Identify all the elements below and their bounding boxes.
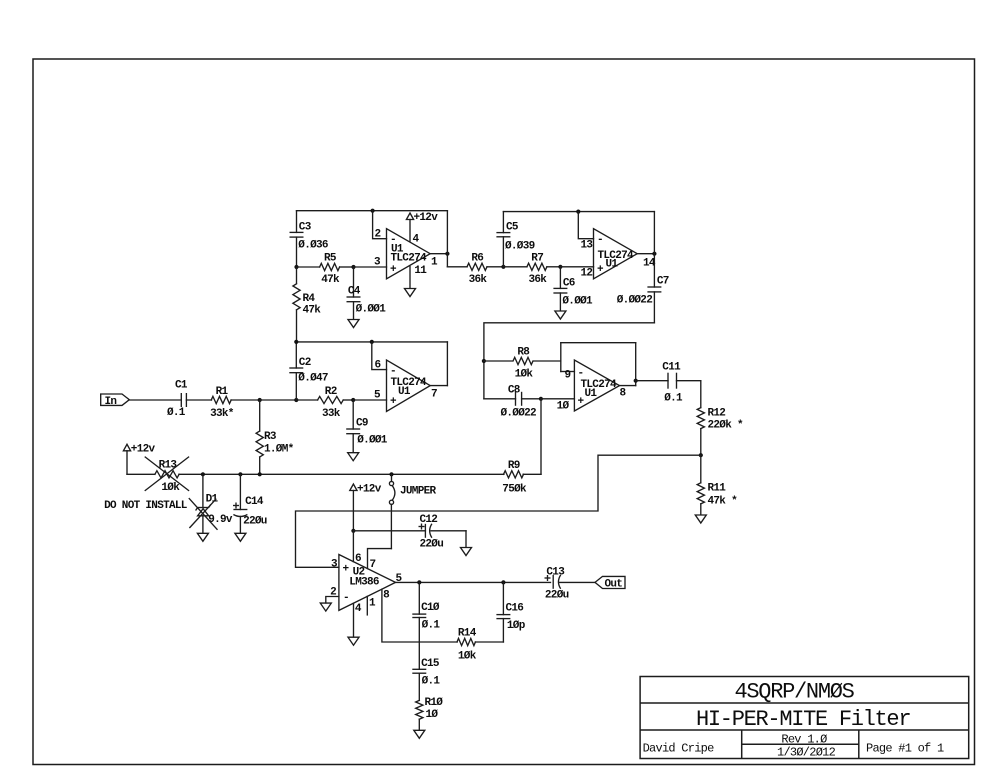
R14 label xyxy=(458,628,477,640)
svg-text:Ø.ØØ22: Ø.ØØ22 xyxy=(501,408,537,420)
R13 delete cross xyxy=(145,457,189,491)
wire U1a output xyxy=(430,253,447,255)
wire C2node to R2 xyxy=(296,399,317,401)
wire pin9 vertical xyxy=(560,343,562,372)
node R7/C6/pin12 xyxy=(558,265,562,269)
U1a +12v supply pin 4 xyxy=(406,213,413,241)
node stage3 top junction xyxy=(370,340,374,344)
svg-text:DO NOT INSTALL: DO NOT INSTALL xyxy=(104,500,188,512)
C14 value 220u xyxy=(243,516,267,528)
C3 value 0.036 xyxy=(298,240,328,252)
+12v label U1a xyxy=(414,212,439,224)
C2 label xyxy=(299,357,311,369)
svg-text:C8: C8 xyxy=(508,385,521,397)
C13 plus mark xyxy=(545,575,551,581)
wire pin5 stub xyxy=(353,399,386,401)
svg-text:Ø.1: Ø.1 xyxy=(422,676,441,688)
node C14 tap xyxy=(238,472,242,476)
wire U1c output xyxy=(430,385,447,387)
R2 label xyxy=(325,386,337,398)
+12v supply U2 xyxy=(350,484,357,531)
svg-text:R8: R8 xyxy=(517,347,530,359)
svg-text:In: In xyxy=(105,396,117,408)
svg-text:U1: U1 xyxy=(585,388,598,400)
svg-text:HI-PER-MITE Filter: HI-PER-MITE Filter xyxy=(696,707,910,732)
svg-text:+12v: +12v xyxy=(357,483,382,495)
resistor R5 xyxy=(297,263,354,270)
svg-text:Ø.ØØ22: Ø.ØØ22 xyxy=(617,295,653,307)
capacitor C5 xyxy=(496,212,510,267)
pin 14 label xyxy=(643,258,656,270)
pin 4 label xyxy=(413,234,420,246)
pin 7 label U2 xyxy=(370,559,376,571)
wire pin6 drop xyxy=(372,342,387,370)
svg-text:2: 2 xyxy=(330,587,336,599)
pin 3 label U2 xyxy=(331,558,338,570)
svg-text:Ø.ØØ1: Ø.ØØ1 xyxy=(562,296,593,308)
ground D1 xyxy=(197,533,208,541)
ground R11 xyxy=(695,515,706,523)
svg-text:1Øp: 1Øp xyxy=(507,620,526,632)
wire pin12 stub xyxy=(560,266,593,268)
svg-text:C13: C13 xyxy=(546,567,565,579)
pin 13 label xyxy=(581,240,594,252)
page Page #1 of 1 xyxy=(866,742,944,756)
wire In to C1 xyxy=(129,399,181,401)
connector In xyxy=(101,394,130,408)
C7 label xyxy=(657,276,669,288)
pin 5 label xyxy=(374,390,381,402)
title block frame xyxy=(640,677,969,759)
wire C12 to ground xyxy=(465,531,467,547)
svg-text:36k: 36k xyxy=(469,274,488,286)
svg-text:Ø.1: Ø.1 xyxy=(167,407,186,419)
D1 delete cross xyxy=(189,498,218,530)
title HI-PER-MITE Filter xyxy=(696,707,910,732)
svg-text:TLC274: TLC274 xyxy=(391,252,428,264)
capacitor C11 xyxy=(636,373,701,389)
ground C9 xyxy=(348,453,359,461)
svg-text:R1Ø: R1Ø xyxy=(425,697,444,709)
node C16 tap xyxy=(501,580,505,584)
svg-text:R7: R7 xyxy=(531,253,543,265)
svg-text:R9: R9 xyxy=(508,460,520,472)
node C10 tap xyxy=(417,580,421,584)
node U1b output xyxy=(652,252,656,256)
node R3 bottom xyxy=(258,472,262,476)
svg-text:-: - xyxy=(343,592,349,604)
svg-text:C4: C4 xyxy=(348,286,361,298)
svg-text:Out: Out xyxy=(605,578,623,590)
svg-text:C1: C1 xyxy=(175,380,188,392)
C15 value 0.1 xyxy=(422,676,441,688)
svg-text:U1: U1 xyxy=(606,259,619,271)
capacitor C14 polarized xyxy=(233,474,247,533)
C4 value 0.001 xyxy=(356,304,387,316)
C9 value 0.001 xyxy=(357,435,388,447)
wire U1a output vertical xyxy=(446,211,448,267)
pin 2 label xyxy=(375,229,381,241)
op-amp U1 section D xyxy=(574,360,619,411)
svg-text:13: 13 xyxy=(581,240,594,252)
wire C7 to stage4 input xyxy=(484,323,655,399)
svg-text:36k: 36k xyxy=(529,274,548,286)
pin 11 label xyxy=(414,265,427,277)
wire jumper to pin7 xyxy=(368,549,392,569)
svg-text:75Øk: 75Øk xyxy=(502,484,527,496)
pin 6 label U1c xyxy=(375,359,381,371)
node stage1 top junction xyxy=(371,209,375,213)
node R5/C4/pin3 xyxy=(351,265,355,269)
svg-text:22Øk *: 22Øk * xyxy=(708,420,744,432)
C13 label xyxy=(546,567,565,579)
pin 5 label U2 xyxy=(396,573,403,585)
svg-text:-: - xyxy=(597,234,603,246)
op-amp U1 section B xyxy=(594,229,638,279)
author David Cripe xyxy=(643,742,715,756)
ground U1a xyxy=(405,289,416,297)
svg-text:R2: R2 xyxy=(325,386,337,398)
pin 10 label xyxy=(557,401,570,413)
svg-text:6: 6 xyxy=(375,359,381,371)
ground C14 xyxy=(235,533,246,541)
svg-text:7: 7 xyxy=(370,559,376,571)
svg-text:C15: C15 xyxy=(421,658,440,670)
capacitor C13 polarized xyxy=(553,575,595,589)
C6 label xyxy=(563,278,575,290)
svg-text:R12: R12 xyxy=(708,408,726,420)
svg-text:+12v: +12v xyxy=(414,212,439,224)
R4 label xyxy=(303,293,316,305)
wire pin3 stub xyxy=(354,266,387,268)
capacitor C4 xyxy=(347,267,361,319)
+12v supply left xyxy=(123,444,130,474)
svg-text:R6: R6 xyxy=(471,253,483,265)
svg-text:C16: C16 xyxy=(506,603,524,615)
C4 label xyxy=(348,286,361,298)
svg-text:R1: R1 xyxy=(216,386,229,398)
svg-text:12: 12 xyxy=(581,268,593,280)
pin 8 label U1d xyxy=(620,388,627,400)
ground C12 xyxy=(461,548,472,556)
title 4SQRP/NM0S xyxy=(735,680,855,705)
wire pin4 drop xyxy=(353,603,355,637)
rev Rev 1.0 xyxy=(781,732,827,746)
R12 label xyxy=(708,408,726,420)
svg-text:C6: C6 xyxy=(563,278,575,290)
ground U2 pin2 xyxy=(320,603,331,611)
svg-text:Ø.Ø47: Ø.Ø47 xyxy=(298,373,328,385)
svg-text:11: 11 xyxy=(414,265,427,277)
svg-text:JUMPER: JUMPER xyxy=(400,486,437,498)
capacitor C2 xyxy=(289,342,303,400)
svg-text:1Ø: 1Ø xyxy=(426,709,439,721)
svg-text:Ø.1: Ø.1 xyxy=(422,620,441,632)
pin 4 label U2 xyxy=(355,603,362,615)
svg-text:47k: 47k xyxy=(321,274,340,286)
R14 value 10k xyxy=(458,651,477,663)
resistor R4 xyxy=(293,267,300,342)
date 1/30/2012 xyxy=(777,746,836,760)
C14 plus mark xyxy=(233,503,239,509)
R10 label xyxy=(425,697,444,709)
D1 value 9.9v xyxy=(208,514,233,526)
pin 7 label xyxy=(431,388,437,400)
svg-text:R14: R14 xyxy=(458,628,477,640)
node R4/C2 junction xyxy=(294,340,298,344)
wire U1d output xyxy=(620,385,636,387)
resistor R1 xyxy=(211,396,260,403)
svg-text:22Øu: 22Øu xyxy=(420,539,444,551)
svg-text:David Cripe: David Cripe xyxy=(643,742,715,756)
wire stage1 feedback top xyxy=(297,210,448,212)
C16 value 10p xyxy=(507,620,526,632)
svg-text:Ø.Ø36: Ø.Ø36 xyxy=(298,240,328,252)
C14 label xyxy=(245,496,264,508)
R13 value 10k xyxy=(161,482,180,494)
R1 value 33k* xyxy=(210,408,234,420)
R9 label xyxy=(508,460,520,472)
node D1 tap xyxy=(201,472,205,476)
+12v label left xyxy=(131,443,156,455)
capacitor C3 xyxy=(290,211,304,267)
svg-text:R5: R5 xyxy=(324,253,337,265)
wire U2 output xyxy=(396,581,551,583)
pin 12 label xyxy=(581,268,593,280)
C12 plus mark xyxy=(419,524,425,530)
R6 label xyxy=(471,253,483,265)
svg-text:47k: 47k xyxy=(303,304,322,316)
svg-text:R3: R3 xyxy=(264,431,277,443)
R11 label xyxy=(708,483,727,495)
wire pin2 stub xyxy=(326,597,339,604)
op-amp U2 LM386 xyxy=(339,555,396,611)
ground C6 xyxy=(555,311,566,319)
wire pin10 stub xyxy=(541,398,575,400)
wire stage4 feedback top xyxy=(561,342,636,344)
wire pin2 drop xyxy=(373,211,387,239)
resistor R9 xyxy=(504,471,542,478)
R7 value 36k xyxy=(529,274,548,286)
node +12v/C12 xyxy=(351,529,355,533)
R8 label xyxy=(517,347,530,359)
svg-text:C11: C11 xyxy=(662,362,681,374)
C11 value 0.1 xyxy=(664,393,683,405)
svg-text:1Øk: 1Øk xyxy=(458,651,477,663)
C3 label xyxy=(299,222,312,234)
C13 value 220u xyxy=(545,590,569,602)
wire divider to LM386 input xyxy=(296,455,701,567)
node jumper tap xyxy=(389,472,393,476)
svg-text:C2: C2 xyxy=(299,357,311,369)
R11 value 47k * xyxy=(708,495,738,507)
U1a pin 11 to ground xyxy=(409,267,411,289)
svg-text:1.ØM*: 1.ØM* xyxy=(264,443,294,455)
svg-text:C5: C5 xyxy=(506,222,519,234)
node R3 tap xyxy=(258,398,262,402)
wire U1c output up to feedback xyxy=(446,342,448,386)
svg-text:R11: R11 xyxy=(708,483,727,495)
svg-text:Page #1 of 1: Page #1 of 1 xyxy=(866,742,944,756)
C1 label xyxy=(175,380,188,392)
wire stage2 feedback top xyxy=(503,211,654,213)
pin 1 stub xyxy=(366,596,368,615)
node C9/pin5 xyxy=(351,398,355,402)
svg-text:C9: C9 xyxy=(356,418,368,430)
svg-text:C3: C3 xyxy=(299,222,312,234)
C5 label xyxy=(506,222,519,234)
R1 label xyxy=(216,386,229,398)
C9 label xyxy=(356,418,368,430)
capacitor C8 xyxy=(484,392,541,406)
op-amp U1 section C xyxy=(387,360,431,412)
node C3/R5/R4 xyxy=(294,265,298,269)
C11 label xyxy=(662,362,681,374)
svg-text:2: 2 xyxy=(375,229,381,241)
wire U1b output up to feedback xyxy=(653,212,655,254)
capacitor C9 xyxy=(346,400,360,452)
C15 label xyxy=(421,658,440,670)
C1 value 0.1 xyxy=(167,407,186,419)
node C8/pin10/R9 xyxy=(539,397,543,401)
R12 value 220k * xyxy=(708,420,744,432)
capacitor C10 xyxy=(412,582,426,669)
C8 label xyxy=(508,385,521,397)
pin 1 label U2 xyxy=(369,597,376,609)
svg-text:9: 9 xyxy=(565,370,571,382)
pin 9 label xyxy=(565,370,571,382)
svg-text:C14: C14 xyxy=(245,496,264,508)
C6 value 0.001 xyxy=(562,296,593,308)
svg-text:Ø.Ø39: Ø.Ø39 xyxy=(505,241,535,253)
svg-text:1Øk: 1Øk xyxy=(161,482,180,494)
resistor R2 xyxy=(318,396,354,403)
resistor R13 xyxy=(155,471,179,478)
wire pin8 to R14 xyxy=(382,589,457,642)
svg-text:1Øk: 1Øk xyxy=(515,369,534,381)
C7 value 0.0022 xyxy=(617,295,653,307)
node U1d output xyxy=(634,379,638,383)
connector Out xyxy=(595,576,625,590)
C12 value 220u xyxy=(420,539,444,551)
wire stage3 feedback top xyxy=(296,341,447,343)
ground R10 xyxy=(414,730,425,738)
capacitor C12 polarized xyxy=(353,524,466,538)
svg-text:Ø.ØØ1: Ø.ØØ1 xyxy=(357,435,388,447)
C10 label xyxy=(421,602,440,614)
capacitor C16 xyxy=(496,582,510,642)
pin 1 label xyxy=(431,256,438,268)
node R6/R7/C5 xyxy=(501,265,505,269)
diode D1 zener xyxy=(196,474,211,533)
wire stage4 feedback drop xyxy=(635,343,637,386)
wire C1 to R1 xyxy=(186,399,211,401)
DO NOT INSTALL note xyxy=(104,500,188,512)
R8 value 10k xyxy=(515,369,534,381)
R6 value 36k xyxy=(469,274,488,286)
node stage2 top junction xyxy=(576,210,580,214)
R9 value 750k xyxy=(502,484,527,496)
R5 value 47k xyxy=(321,274,340,286)
ground U2 pin4 xyxy=(348,637,359,645)
svg-text:1/3Ø/2Ø12: 1/3Ø/2Ø12 xyxy=(777,746,836,760)
resistor R8 xyxy=(484,357,561,364)
svg-text:U1: U1 xyxy=(398,386,411,398)
wire pin9 stub xyxy=(561,371,575,373)
pin 2 label U2 xyxy=(330,587,336,599)
node C2 bottom xyxy=(294,398,298,402)
wire R9 to C8 node xyxy=(540,399,542,475)
wire bias rail xyxy=(127,473,504,475)
resistor R3 xyxy=(256,400,263,474)
R2 value 33k xyxy=(322,408,341,420)
wire pin13 drop xyxy=(578,212,593,239)
svg-text:33k*: 33k* xyxy=(210,408,234,420)
resistor R11 xyxy=(697,455,704,514)
svg-text:LM386: LM386 xyxy=(349,577,379,589)
node U1a output xyxy=(445,252,449,256)
wire R1 to C2 node xyxy=(260,399,297,401)
svg-text:R4: R4 xyxy=(303,293,316,305)
node R12/R11 xyxy=(699,453,703,457)
resistor R7 xyxy=(503,263,560,270)
svg-text:47k *: 47k * xyxy=(708,495,738,507)
ground C4 xyxy=(348,320,359,328)
svg-text:33k: 33k xyxy=(322,408,341,420)
resistor R6 xyxy=(447,263,503,270)
D1 label xyxy=(206,494,219,506)
R5 label xyxy=(324,253,337,265)
R3 label xyxy=(264,431,277,443)
op-amp U1 section A xyxy=(387,229,431,279)
JUMPER label xyxy=(400,486,437,498)
svg-text:Ø.ØØ1: Ø.ØØ1 xyxy=(356,304,387,316)
svg-text:4SQRP/NMØS: 4SQRP/NMØS xyxy=(735,680,855,705)
svg-text:1Ø: 1Ø xyxy=(557,401,570,413)
svg-text:-: - xyxy=(578,367,584,379)
svg-text:C12: C12 xyxy=(420,514,438,526)
resistor R14 xyxy=(457,638,503,645)
jumper J1 xyxy=(389,474,395,548)
svg-text:C1Ø: C1Ø xyxy=(421,602,440,614)
node R8 tee xyxy=(482,359,486,363)
C8 value 0.0022 xyxy=(501,408,537,420)
svg-text:22Øu: 22Øu xyxy=(545,590,569,602)
svg-text:7: 7 xyxy=(431,388,437,400)
pin 3 label xyxy=(374,256,381,268)
svg-text:Ø.1: Ø.1 xyxy=(664,393,683,405)
wire pin6 drop U2 xyxy=(352,531,354,562)
C12 label xyxy=(420,514,438,526)
svg-text:Rev 1.Ø: Rev 1.Ø xyxy=(781,732,827,746)
capacitor C7 xyxy=(647,254,661,323)
svg-text:-: - xyxy=(390,365,396,377)
C16 label xyxy=(506,603,524,615)
capacitor C6 xyxy=(553,267,567,311)
C2 value 0.047 xyxy=(298,373,328,385)
pin 8 label U2 xyxy=(383,589,390,601)
wire U1b output xyxy=(637,253,654,255)
R13 label xyxy=(159,460,178,472)
C10 value 0.1 xyxy=(422,620,441,632)
R3 value 1.0M* xyxy=(264,443,294,455)
R7 label xyxy=(531,253,543,265)
svg-text:C7: C7 xyxy=(657,276,669,288)
R10 value 10 xyxy=(426,709,439,721)
svg-text:22Øu: 22Øu xyxy=(243,516,267,528)
R4 value 47k xyxy=(303,304,322,316)
+12v label U2 xyxy=(357,483,382,495)
